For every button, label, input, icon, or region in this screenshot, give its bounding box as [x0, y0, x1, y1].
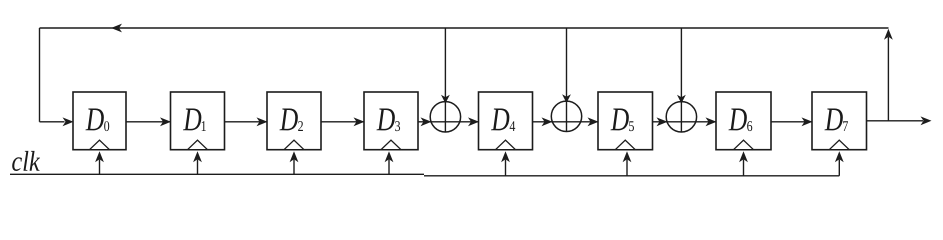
wire: D6 to D7 — [771, 117, 813, 126]
label D3 — [376, 109, 394, 131]
flip-flop D4 — [479, 92, 533, 150]
flip-flop D1 — [171, 92, 225, 150]
clock triangle pin of D5 — [615, 140, 635, 150]
clock triangle pin of D6 — [734, 140, 754, 150]
flip-flop D7 — [812, 92, 867, 150]
wire: clock riser to D0 — [95, 151, 104, 174]
wire: feedback riser from output node — [884, 29, 893, 121]
wire: clock rail (left segment) — [10, 173, 424, 175]
clk label — [12, 151, 40, 171]
flip-flop D3 — [364, 92, 418, 150]
label D0 — [85, 109, 103, 131]
label D6 — [728, 109, 746, 131]
clock triangle pin of D7 — [829, 140, 849, 150]
wire: D0 to D1 — [126, 117, 171, 126]
clock triangle pin of D1 — [188, 140, 208, 150]
clock triangle pin of D2 — [284, 140, 304, 150]
wire: D3 through X1 to D4 — [418, 117, 479, 126]
wire: D1 to D2 — [225, 117, 268, 126]
wire: clock riser to D6 — [739, 151, 748, 176]
label D7 — [824, 109, 842, 131]
wire: clock riser to D3 — [385, 151, 394, 174]
wire: D4 through X2 to D5 — [533, 117, 599, 126]
xor gate X1 — [430, 28, 460, 132]
arrowhead: down into X1 — [441, 95, 450, 104]
wire: D2 to D3 — [321, 117, 365, 126]
clock triangle pin of D0 — [90, 140, 110, 150]
label D1 — [183, 109, 201, 131]
clock triangle pin of D4 — [496, 140, 516, 150]
wire: feedback tap drop into X3 — [680, 28, 682, 132]
wire: clock riser to D1 — [193, 151, 202, 174]
flip-flop D6 — [716, 92, 771, 150]
arrowhead: left-pointing on top feedback bus — [111, 24, 122, 33]
wire: clock riser to D4 — [501, 151, 510, 176]
flip-flop D0 — [73, 92, 126, 150]
wire: feedback tap drop into X2 — [566, 28, 568, 132]
label D4 — [491, 109, 509, 131]
xor gate X2 — [551, 28, 581, 132]
label D2 — [279, 109, 297, 131]
flip-flop D5 — [598, 92, 653, 150]
flip-flop D2 — [267, 92, 321, 150]
arrowhead: down into X2 — [562, 94, 571, 103]
wire: clock rail (right segment) — [424, 175, 839, 177]
wire: input into flip-flop D0 — [40, 117, 74, 126]
wire: D5 through X3 to D6 — [653, 117, 717, 126]
wire: top feedback bus — [40, 27, 889, 29]
xor gate X3 — [666, 28, 696, 132]
label D5 — [610, 109, 628, 131]
wire: clock riser to D7 — [835, 151, 844, 176]
arrowhead: down into X3 — [677, 95, 686, 104]
wire: D7 output to the right edge — [867, 116, 932, 125]
wire: clock riser to D2 — [290, 151, 299, 174]
clock triangle pin of D3 — [381, 140, 401, 150]
wire: feedback tap drop into X1 — [444, 28, 446, 132]
wire: clock riser to D5 — [623, 151, 632, 176]
wire: left feedback drop — [39, 28, 41, 122]
